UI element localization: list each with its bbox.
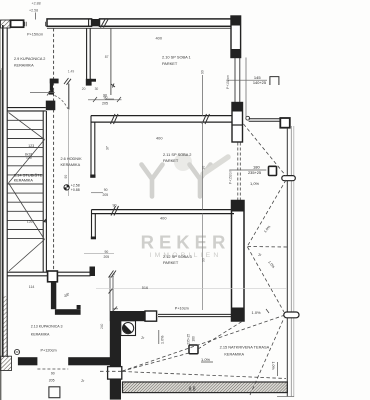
bathroom door jamb wall <box>50 79 59 84</box>
terrace parapet top <box>249 118 281 120</box>
west wall of room2 <box>90 116 92 175</box>
svg-text:1.49: 1.49 <box>68 69 75 73</box>
stair wall black block <box>46 101 56 111</box>
svg-text:90: 90 <box>201 258 205 262</box>
svg-text:8.8: 8.8 <box>189 387 196 393</box>
svg-text:205: 205 <box>49 379 55 383</box>
north wall hatched corner block <box>1 20 11 28</box>
stair bottom wall <box>7 271 90 273</box>
svg-text:1,0%: 1,0% <box>250 181 260 186</box>
stair walk line diagonals <box>9 113 45 272</box>
dim ticks above laundry wall <box>113 308 119 310</box>
wall room1/room2 <box>91 115 232 117</box>
break marks door <box>64 78 71 85</box>
laundry top wall <box>110 311 145 321</box>
svg-text:2.15 NATKRIVENA TERASA: 2.15 NATKRIVENA TERASA <box>220 344 270 349</box>
break marks corridor <box>109 271 117 278</box>
svg-text:2.9 KUPAONICA 2: 2.9 KUPAONICA 2 <box>14 57 45 61</box>
west wall of room3 <box>91 210 93 237</box>
svg-text:2.13 KUPAONICA 3: 2.13 KUPAONICA 3 <box>31 324 63 328</box>
svg-text:KERAMIKA: KERAMIKA <box>14 178 34 182</box>
door opening dashes <box>37 368 68 370</box>
svg-text:400: 400 <box>156 35 163 40</box>
svg-text:30: 30 <box>95 87 99 91</box>
svg-text:90: 90 <box>200 70 204 74</box>
svg-text:140+25: 140+25 <box>253 80 266 85</box>
interior line room1 x110 <box>110 28 112 95</box>
boiler square <box>121 321 136 336</box>
south wall right segment <box>68 357 110 365</box>
svg-text:1.0%: 1.0% <box>271 362 275 371</box>
north wall black cell <box>92 19 100 26</box>
column C3 <box>232 201 245 322</box>
terrace corner post <box>280 118 290 128</box>
svg-text:20: 20 <box>82 87 86 91</box>
stair treads <box>7 111 43 238</box>
svg-text:+0.88: +0.88 <box>71 188 80 192</box>
stair top wall <box>7 107 45 109</box>
terrace dashed slope lines <box>100 124 287 395</box>
hollow cell <box>145 311 157 321</box>
svg-text:+2.58: +2.58 <box>71 184 80 188</box>
band end line <box>277 396 294 398</box>
svg-text:PARKET: PARKET <box>163 260 179 265</box>
terrace bottom hatched band <box>123 382 288 393</box>
wall room2/room3 <box>92 209 235 211</box>
mid terrace dim <box>229 169 266 171</box>
north wall segment A <box>11 20 24 27</box>
svg-text:2.11 SP SOBA 2: 2.11 SP SOBA 2 <box>163 152 191 157</box>
drain square D1 <box>269 166 277 175</box>
svg-text:205: 205 <box>102 101 108 105</box>
svg-text:KERAMIKA: KERAMIKA <box>31 333 50 337</box>
break marks on north wall <box>101 19 109 28</box>
bathroom east wall <box>86 28 88 79</box>
level marker <box>64 185 69 190</box>
dim line window W1 <box>227 79 267 81</box>
svg-text:P+10cm: P+10cm <box>175 307 189 311</box>
window left jamb tick <box>25 22 27 26</box>
break marks wall1 <box>111 114 119 124</box>
leader line x68.6 <box>68 110 70 196</box>
dim 90/205 room3 <box>84 253 114 255</box>
scan left border <box>0 68 1 400</box>
svg-text:90: 90 <box>113 204 117 208</box>
svg-text:114: 114 <box>29 285 35 289</box>
small arrow mark <box>111 84 115 88</box>
door swing <box>55 96 69 110</box>
svg-text:87: 87 <box>105 55 109 59</box>
svg-text:+2.88: +2.88 <box>32 2 41 6</box>
svg-text:37: 37 <box>106 146 110 150</box>
boiler circle <box>123 323 134 334</box>
dim line bathroom <box>30 92 55 94</box>
wall niche square <box>108 367 122 380</box>
svg-text:90: 90 <box>104 188 108 192</box>
svg-text:90: 90 <box>105 250 109 254</box>
svg-text:KERAMIKA: KERAMIKA <box>61 163 81 167</box>
dim 516 line <box>96 287 287 289</box>
svg-text:+2.58: +2.58 <box>29 8 38 12</box>
dim tick <box>91 192 103 194</box>
parapet low wall <box>158 313 233 315</box>
svg-text:516: 516 <box>142 286 148 290</box>
interior line x246 <box>245 58 247 119</box>
wall divider <box>88 19 90 26</box>
stair arrow tip <box>43 218 47 223</box>
drain pill P1 <box>282 176 296 181</box>
column C2 <box>232 103 243 143</box>
window schedule bracket <box>270 77 279 85</box>
svg-text:205: 205 <box>103 193 109 197</box>
svg-text:1.0%: 1.0% <box>201 357 211 362</box>
drain square D2 <box>189 345 198 354</box>
svg-text:2.10 SP SOBA 1: 2.10 SP SOBA 1 <box>162 54 191 59</box>
svg-text:P+150cm: P+150cm <box>27 33 43 37</box>
svg-text:REKER: REKER <box>141 232 231 253</box>
svg-text:PARKET: PARKET <box>163 158 179 163</box>
column C1 top-right <box>231 16 241 58</box>
svg-text:240: 240 <box>100 323 104 329</box>
svg-text:90: 90 <box>51 372 55 376</box>
svg-text:180: 180 <box>253 165 260 170</box>
watermark logo <box>142 153 229 197</box>
svg-text:1.0%: 1.0% <box>161 335 165 344</box>
south wall left segment <box>18 357 38 365</box>
svg-text:75: 75 <box>66 293 70 297</box>
partition wall vertical <box>51 282 56 309</box>
stair east wall <box>42 111 44 272</box>
svg-text:400: 400 <box>160 216 167 221</box>
svg-text:90: 90 <box>201 166 205 170</box>
drain pill P2 <box>284 312 299 318</box>
terrace east edge lines <box>286 128 288 397</box>
north wall segment C <box>100 19 232 26</box>
svg-text:3.14 STUBIŠTE: 3.14 STUBIŠTE <box>14 173 43 178</box>
window W1 glass lines <box>234 58 236 103</box>
svg-text:P+152cm: P+152cm <box>226 75 230 89</box>
window right jamb tick <box>44 22 46 26</box>
svg-text:235+25: 235+25 <box>187 334 191 345</box>
top leader line <box>35 13 37 20</box>
svg-text:205: 205 <box>104 255 110 259</box>
svg-text:152: 152 <box>27 219 33 223</box>
interior vertical line x203 <box>202 75 204 116</box>
svg-text:2.6 HODNIK: 2.6 HODNIK <box>61 157 83 161</box>
laundry thick west wall <box>110 311 121 367</box>
svg-text:90: 90 <box>64 175 68 179</box>
svg-text:235+25: 235+25 <box>248 170 261 175</box>
svg-text:P+120cm: P+120cm <box>41 349 57 353</box>
svg-text:PARKET: PARKET <box>162 61 178 66</box>
north wall segment B <box>47 19 92 26</box>
bathroom door leaf <box>68 84 70 110</box>
north wall inner line <box>47 27 232 29</box>
break marks wall2 <box>111 206 119 216</box>
hatched block left bottom <box>1 356 12 370</box>
corridor east line <box>109 276 111 311</box>
square column at stair wall <box>48 271 58 282</box>
svg-text:KERAMIKA: KERAMIKA <box>14 63 34 67</box>
wall end hook <box>90 267 96 277</box>
svg-text:123: 123 <box>28 144 34 148</box>
svg-text:P+152cm: P+152cm <box>229 170 233 184</box>
svg-text:180: 180 <box>192 336 196 342</box>
svg-text:=29: =29 <box>26 156 32 160</box>
svg-text:1.0%: 1.0% <box>252 310 262 315</box>
door schedule square <box>49 387 60 398</box>
hallway dashed line <box>53 28 55 271</box>
left exterior wall <box>2 25 4 357</box>
svg-text:2.12 SP SOBA 3: 2.12 SP SOBA 3 <box>163 254 192 259</box>
svg-text:KERAMIKA: KERAMIKA <box>224 353 244 357</box>
partition wall horizontal <box>55 309 81 315</box>
glass dashed between C2 C3 <box>237 143 239 201</box>
svg-text:400: 400 <box>156 135 163 140</box>
circle at column C2 <box>246 116 250 120</box>
dim line 90/265 <box>88 99 122 101</box>
floor drain circle <box>14 349 19 354</box>
